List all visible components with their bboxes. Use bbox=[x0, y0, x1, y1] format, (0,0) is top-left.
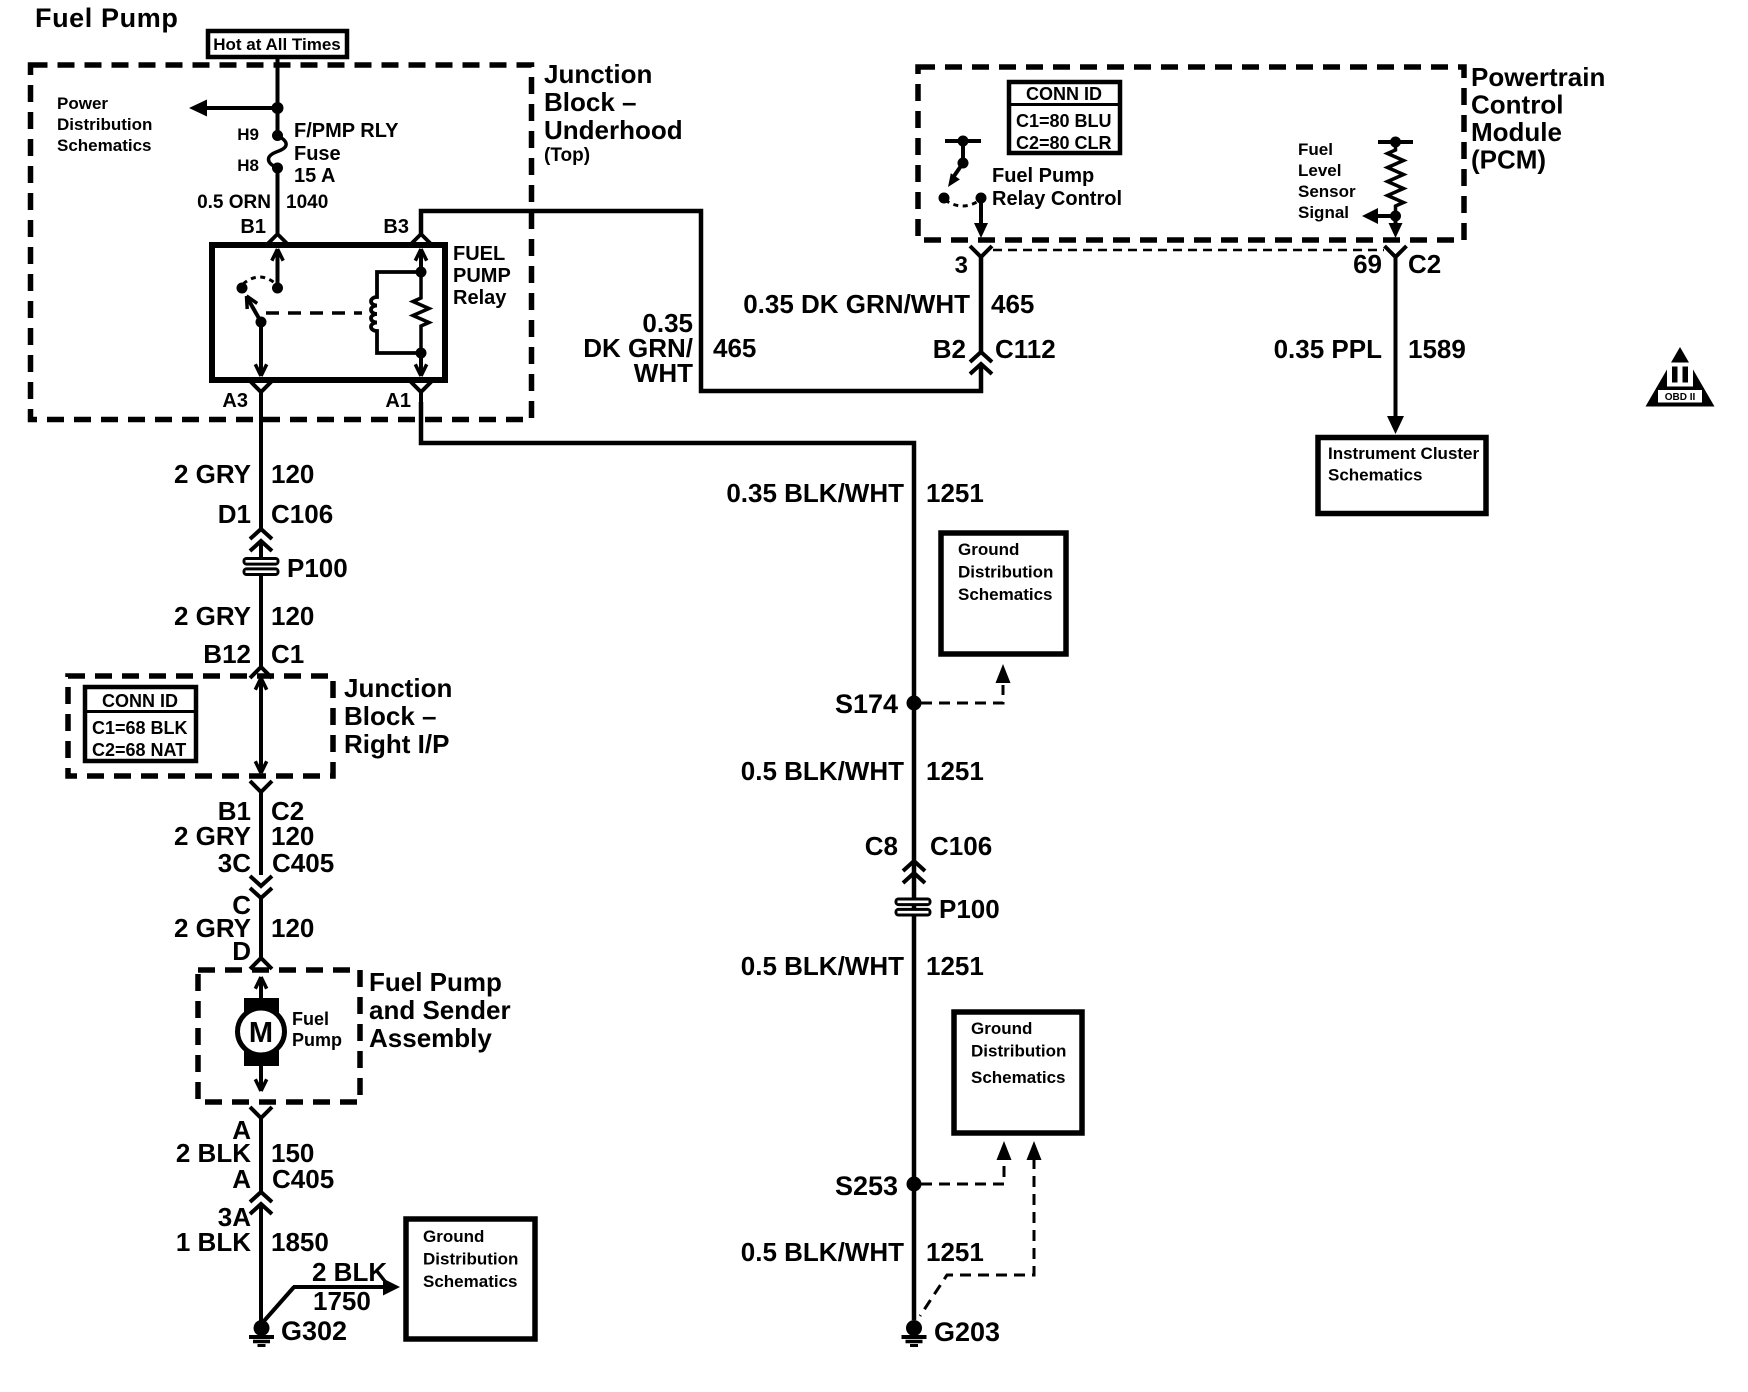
wire: battery feed from Hot at All Times to fuse H9 bbox=[276, 57, 280, 135]
dashed link: ground distribution schematics to G203 bbox=[920, 1158, 1034, 1316]
relay switch common arm (from B1) bbox=[276, 252, 280, 288]
svg-text:1251: 1251 bbox=[926, 756, 984, 786]
svg-text:Block –: Block – bbox=[344, 701, 437, 731]
svg-text:120: 120 bbox=[271, 913, 314, 943]
svg-text:Relay: Relay bbox=[453, 287, 507, 309]
svg-text:P100: P100 bbox=[287, 553, 348, 583]
svg-text:0.5 BLK/WHT: 0.5 BLK/WHT bbox=[741, 951, 904, 981]
wire: relay A3 down to C106 (2 GRY 120) bbox=[259, 402, 263, 528]
relay actuation dashed link bbox=[266, 311, 362, 315]
svg-text:69: 69 bbox=[1353, 249, 1382, 279]
svg-text:D: D bbox=[232, 936, 251, 966]
relay switch blade bbox=[248, 299, 261, 322]
relay coil resistor branch bbox=[413, 272, 429, 353]
svg-text:3: 3 bbox=[955, 252, 968, 279]
svg-text:0.5 ORN: 0.5 ORN bbox=[197, 192, 271, 213]
PCM CONN ID table bbox=[1009, 82, 1120, 153]
inline connector C112 (B2) double chevron bbox=[970, 352, 992, 362]
svg-text:Level: Level bbox=[1298, 161, 1341, 180]
wire out of fuel pump motor bbox=[259, 1066, 263, 1091]
svg-text:M: M bbox=[249, 1017, 273, 1049]
svg-text:120: 120 bbox=[271, 459, 314, 489]
power feed label box: Hot at All Times bbox=[208, 31, 347, 57]
svg-text:C2=80 CLR: C2=80 CLR bbox=[1016, 133, 1112, 153]
svg-text:G203: G203 bbox=[934, 1317, 1000, 1347]
svg-text:CONN ID: CONN ID bbox=[1026, 84, 1102, 104]
svg-text:Control: Control bbox=[1471, 90, 1563, 120]
svg-text:Fuel: Fuel bbox=[1298, 140, 1333, 159]
svg-text:OBD II: OBD II bbox=[1665, 392, 1696, 403]
relay coil arm (from B3) bbox=[419, 252, 423, 272]
svg-text:H8: H8 bbox=[237, 156, 259, 175]
wire: assembly to C405 (2 BLK 150) bbox=[259, 1118, 263, 1192]
svg-text:(Top): (Top) bbox=[544, 145, 590, 166]
svg-text:Distribution: Distribution bbox=[423, 1250, 518, 1269]
svg-text:P100: P100 bbox=[939, 894, 1000, 924]
svg-text:1251: 1251 bbox=[926, 951, 984, 981]
svg-text:Underhood: Underhood bbox=[544, 115, 683, 145]
svg-text:(PCM): (PCM) bbox=[1471, 145, 1546, 175]
svg-text:1251: 1251 bbox=[926, 1237, 984, 1267]
svg-text:Schematics: Schematics bbox=[1328, 466, 1423, 485]
svg-text:Right I/P: Right I/P bbox=[344, 729, 449, 759]
wire: P100 to junction block right I/P (2 GRY 120) bbox=[259, 576, 263, 667]
pass-through grommet P100 (middle) bbox=[895, 898, 932, 907]
PCM dashed box bbox=[918, 67, 1464, 240]
arrow: fuel level sensor signal bbox=[1390, 211, 1401, 222]
fuse F/PMP RLY 15 A bbox=[272, 130, 283, 141]
svg-text:C2=68 NAT: C2=68 NAT bbox=[92, 740, 186, 760]
junction block internal wire bbox=[259, 678, 263, 773]
pin A (below assembly) bbox=[250, 1107, 272, 1118]
arrow: to Power Distribution Schematics bbox=[204, 106, 278, 110]
svg-text:Junction: Junction bbox=[344, 673, 452, 703]
svg-text:G302: G302 bbox=[281, 1316, 347, 1346]
svg-text:B3: B3 bbox=[383, 216, 409, 238]
svg-text:Pump: Pump bbox=[292, 1030, 342, 1050]
relay switch dashed throw arc bbox=[243, 277, 276, 284]
svg-text:C112: C112 bbox=[995, 334, 1056, 364]
svg-text:Assembly: Assembly bbox=[369, 1023, 492, 1053]
svg-text:CONN ID: CONN ID bbox=[102, 691, 178, 711]
svg-text:Ground: Ground bbox=[971, 1019, 1032, 1038]
svg-text:Instrument Cluster: Instrument Cluster bbox=[1328, 444, 1480, 463]
relay switch output to A3 bbox=[259, 322, 263, 375]
svg-text:Schematics: Schematics bbox=[971, 1068, 1066, 1087]
fuel pump motor M bbox=[244, 998, 279, 1014]
svg-text:1 BLK: 1 BLK bbox=[176, 1227, 251, 1257]
box: Instrument Cluster Schematics bbox=[1318, 438, 1486, 514]
PCM fuel pump relay control switch bbox=[945, 139, 981, 143]
svg-text:C1=80 BLU: C1=80 BLU bbox=[1016, 111, 1112, 131]
svg-text:Sensor: Sensor bbox=[1298, 182, 1356, 201]
svg-text:2 GRY: 2 GRY bbox=[174, 601, 251, 631]
box: Ground Distribution Schematics (left) bbox=[406, 1219, 535, 1339]
svg-text:120: 120 bbox=[271, 601, 314, 631]
ground G203 bbox=[906, 1320, 922, 1336]
svg-text:FUEL: FUEL bbox=[453, 243, 505, 265]
svg-text:2 BLK: 2 BLK bbox=[312, 1257, 387, 1287]
svg-text:465: 465 bbox=[991, 289, 1034, 319]
wire: 0.35 PPL 1589 to instrument cluster bbox=[1394, 257, 1398, 418]
ground G302 bbox=[254, 1320, 270, 1336]
svg-text:S253: S253 bbox=[835, 1171, 898, 1201]
wire: sensor to pin 69 bbox=[1394, 216, 1398, 226]
svg-text:F/PMP RLY: F/PMP RLY bbox=[294, 120, 399, 142]
PCM C2 connector dashed pin line bbox=[993, 249, 1384, 252]
svg-text:Block –: Block – bbox=[544, 87, 637, 117]
svg-text:B2: B2 bbox=[933, 334, 966, 364]
fuel pump and sender assembly dashed box bbox=[198, 970, 360, 1102]
svg-text:Fuel Pump: Fuel Pump bbox=[369, 967, 502, 997]
pin B1 / C2 (junction block) bbox=[250, 781, 272, 792]
svg-text:B1: B1 bbox=[240, 216, 266, 238]
wire: fuse to relay B1 (0.5 ORN 1040) bbox=[276, 168, 280, 233]
svg-text:C8: C8 bbox=[865, 831, 898, 861]
svg-text:Fuel: Fuel bbox=[292, 1009, 329, 1029]
svg-text:Ground: Ground bbox=[958, 540, 1019, 559]
svg-text:Fuse: Fuse bbox=[294, 143, 341, 165]
svg-text:C1=68 BLK: C1=68 BLK bbox=[92, 718, 188, 738]
junction block underhood dashed box bbox=[31, 65, 532, 420]
relay: FUEL PUMP Relay box bbox=[212, 245, 445, 380]
svg-text:Fuel Pump: Fuel Pump bbox=[992, 165, 1094, 187]
svg-text:Schematics: Schematics bbox=[958, 585, 1053, 604]
svg-text:C2: C2 bbox=[1408, 249, 1441, 279]
node: feed junction bbox=[272, 102, 284, 114]
svg-text:1251: 1251 bbox=[926, 478, 984, 508]
svg-text:2 GRY: 2 GRY bbox=[174, 459, 251, 489]
svg-text:1040: 1040 bbox=[286, 192, 328, 213]
relay coil inductor branch bbox=[371, 272, 421, 353]
wire: relay A1 to S174 and G203 (BLK/WHT 1251) bbox=[421, 402, 914, 1320]
svg-text:Junction: Junction bbox=[544, 59, 652, 89]
relay switch pivot contact bbox=[237, 283, 248, 294]
svg-text:and Sender: and Sender bbox=[369, 995, 511, 1025]
branch wire: 2 BLK 1750 to ground distribution bbox=[264, 1287, 294, 1321]
junction block right I/P dashed box bbox=[68, 676, 333, 776]
box: Ground Distribution Schematics (lower middle) bbox=[954, 1012, 1082, 1133]
svg-text:0.5 BLK/WHT: 0.5 BLK/WHT bbox=[741, 756, 904, 786]
svg-text:1589: 1589 bbox=[1408, 334, 1466, 364]
svg-text:Distribution: Distribution bbox=[971, 1042, 1066, 1061]
svg-text:H9: H9 bbox=[237, 125, 259, 144]
splice S174 bbox=[907, 696, 922, 711]
svg-text:0.35 PPL: 0.35 PPL bbox=[1274, 334, 1383, 364]
svg-text:D1: D1 bbox=[218, 499, 251, 529]
svg-text:C1: C1 bbox=[271, 639, 304, 669]
svg-text:Schematics: Schematics bbox=[57, 136, 152, 155]
svg-text:Distribution: Distribution bbox=[57, 115, 152, 134]
svg-text:Relay Control: Relay Control bbox=[992, 188, 1122, 210]
svg-text:A3: A3 bbox=[222, 390, 248, 412]
svg-text:2 GRY: 2 GRY bbox=[174, 821, 251, 851]
svg-text:Module: Module bbox=[1471, 117, 1562, 147]
svg-text:Fuel Pump: Fuel Pump bbox=[35, 3, 178, 33]
wire: junction block to C405 (2 GRY 120) bbox=[259, 792, 263, 875]
svg-text:A: A bbox=[232, 1164, 251, 1194]
svg-text:1750: 1750 bbox=[313, 1286, 371, 1316]
svg-text:A1: A1 bbox=[385, 390, 411, 412]
splice S253 bbox=[907, 1177, 922, 1192]
svg-text:C106: C106 bbox=[930, 831, 992, 861]
PCM fuel level sensor resistor bbox=[1378, 140, 1413, 144]
svg-text:Schematics: Schematics bbox=[423, 1272, 518, 1291]
svg-text:1850: 1850 bbox=[271, 1227, 329, 1257]
svg-text:Ground: Ground bbox=[423, 1227, 484, 1246]
svg-text:Signal: Signal bbox=[1298, 203, 1349, 222]
svg-text:B12: B12 bbox=[203, 639, 251, 669]
wire: relay control output bbox=[979, 198, 983, 226]
dashed link: S253 to ground distribution schematics bbox=[921, 1158, 1004, 1184]
svg-text:120: 120 bbox=[271, 821, 314, 851]
svg-text:Power: Power bbox=[57, 94, 108, 113]
svg-text:PUMP: PUMP bbox=[453, 265, 511, 287]
svg-text:15 A: 15 A bbox=[294, 165, 336, 187]
svg-text:C405: C405 bbox=[272, 1164, 334, 1194]
pass-through grommet P100 bbox=[243, 557, 280, 566]
wire into fuel pump motor bbox=[259, 977, 263, 1000]
OBD II marker triangle bbox=[1646, 347, 1715, 407]
svg-text:C106: C106 bbox=[271, 499, 333, 529]
junction block right I/P CONN ID table bbox=[85, 687, 196, 761]
svg-text:Hot at All Times: Hot at All Times bbox=[213, 35, 341, 54]
svg-text:WHT: WHT bbox=[634, 358, 693, 388]
relay coil to A1 bbox=[419, 353, 423, 375]
svg-text:0.35 DK GRN/WHT: 0.35 DK GRN/WHT bbox=[743, 289, 970, 319]
dashed link: S174 to ground distribution schematics bbox=[921, 685, 1003, 703]
svg-text:S174: S174 bbox=[835, 689, 898, 719]
svg-text:0.35 BLK/WHT: 0.35 BLK/WHT bbox=[726, 478, 904, 508]
svg-text:Powertrain: Powertrain bbox=[1471, 62, 1605, 92]
svg-text:Distribution: Distribution bbox=[958, 563, 1053, 582]
svg-text:3C: 3C bbox=[218, 848, 251, 878]
svg-text:465: 465 bbox=[713, 333, 756, 363]
wire: relay B3 to PCM pin 3 (465 DK GRN/WHT) bbox=[421, 211, 981, 391]
box: Ground Distribution Schematics (upper middle) bbox=[941, 533, 1066, 654]
svg-text:C405: C405 bbox=[272, 848, 334, 878]
svg-text:0.5 BLK/WHT: 0.5 BLK/WHT bbox=[741, 1237, 904, 1267]
